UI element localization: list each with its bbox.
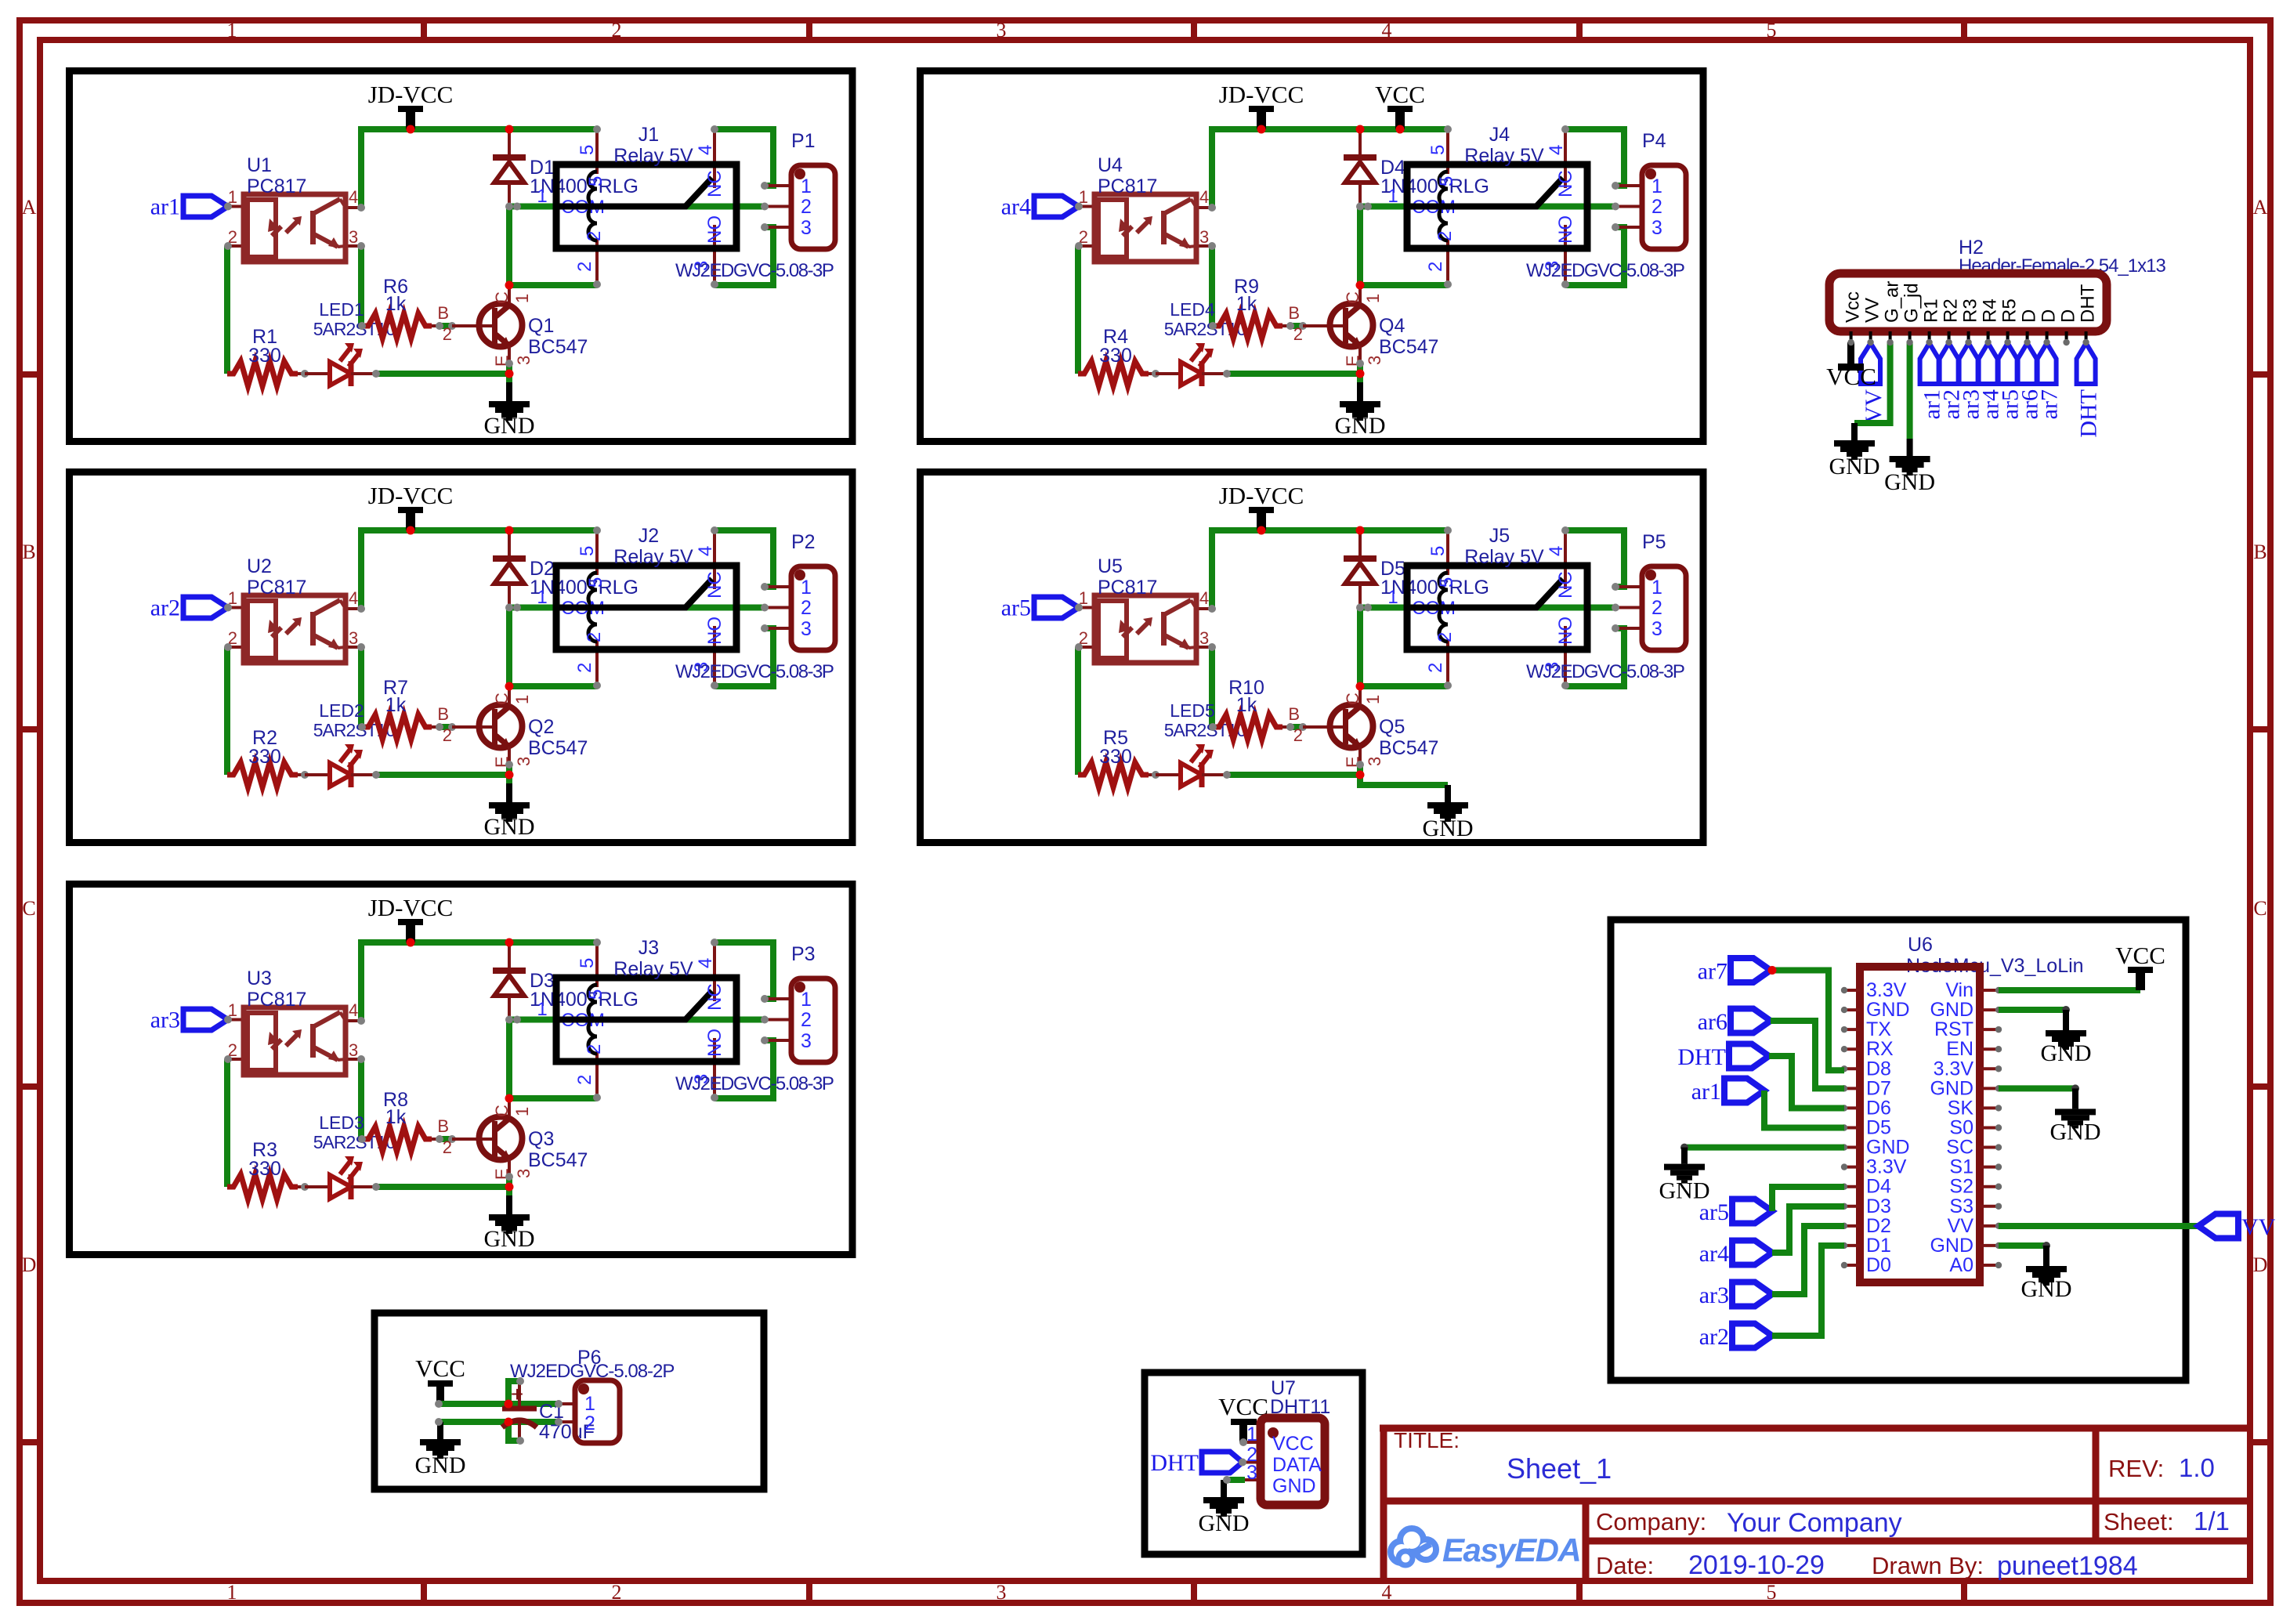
svg-text:ar4: ar4 bbox=[1699, 1241, 1729, 1267]
svg-text:J4: J4 bbox=[1489, 124, 1510, 146]
led LED3 bbox=[305, 1112, 395, 1199]
wire U1 pin2 down bbox=[224, 246, 230, 374]
net label ar4 at H2 bbox=[1978, 343, 2004, 419]
svg-text:JD-VCC: JD-VCC bbox=[1219, 482, 1304, 509]
svg-text:LED2: LED2 bbox=[319, 700, 364, 721]
wire NO to P pin3 bbox=[1565, 227, 1624, 285]
svg-text:G_jd: G_jd bbox=[1901, 283, 1923, 323]
svg-text:GND: GND bbox=[2021, 1276, 2072, 1302]
svg-text:1: 1 bbox=[537, 999, 547, 1020]
svg-text:WJ2EDGVC-5.08-3P: WJ2EDGVC-5.08-3P bbox=[675, 260, 834, 281]
wire Vin to VCC bbox=[1999, 987, 2140, 993]
wire ar6 to D7 bbox=[1771, 1021, 1844, 1088]
svg-text:3.3V: 3.3V bbox=[1866, 1156, 1907, 1178]
svg-text:2: 2 bbox=[443, 725, 452, 745]
svg-text:R3: R3 bbox=[1960, 298, 1981, 323]
svg-text:1k: 1k bbox=[385, 1106, 407, 1128]
svg-text:D2: D2 bbox=[1866, 1215, 1891, 1237]
svg-text:Q5: Q5 bbox=[1379, 716, 1405, 738]
resistor R9 lead dots bbox=[1282, 324, 1290, 327]
svg-text:C: C bbox=[492, 291, 512, 304]
optocoupler U5 PC817 bbox=[1075, 555, 1216, 663]
svg-text:C: C bbox=[492, 1105, 512, 1117]
svg-text:5: 5 bbox=[585, 176, 606, 186]
svg-text:1/1: 1/1 bbox=[2194, 1506, 2230, 1535]
resistor R5 bbox=[1078, 727, 1149, 787]
wire ar7 to D8 bbox=[1771, 971, 1844, 1071]
svg-text:NC: NC bbox=[704, 170, 725, 197]
transistor Q3 BC547 bbox=[437, 1100, 588, 1181]
svg-text:ar3: ar3 bbox=[150, 1007, 180, 1033]
svg-text:NO: NO bbox=[1555, 215, 1576, 244]
svg-text:DHT: DHT bbox=[2078, 284, 2099, 323]
wire ar3 to D2 bbox=[1772, 1226, 1844, 1294]
transistor Q5 BC547 bbox=[1288, 688, 1438, 769]
wire U6 left GND bbox=[1684, 1145, 1844, 1151]
svg-text:330: 330 bbox=[248, 345, 281, 367]
svg-text:LED4: LED4 bbox=[1170, 299, 1215, 320]
resistor R6 bbox=[362, 276, 432, 338]
svg-text:1: 1 bbox=[537, 587, 547, 608]
svg-text:A: A bbox=[22, 196, 37, 219]
resistor R7 lead dots bbox=[432, 725, 440, 729]
net label ar6 at U6 bbox=[1698, 1009, 1771, 1036]
svg-text:C: C bbox=[22, 897, 35, 920]
svg-text:3: 3 bbox=[1246, 1462, 1257, 1484]
svg-text:Q2: Q2 bbox=[528, 716, 554, 738]
ic U6 left pins bbox=[1841, 979, 1910, 1276]
relay J1 Relay 5V bbox=[537, 124, 736, 288]
net label ar7 at H2 bbox=[2037, 343, 2063, 419]
ground GND U6 right top bbox=[2041, 1010, 2092, 1066]
svg-text:Your Company: Your Company bbox=[1727, 1508, 1902, 1538]
svg-text:GND: GND bbox=[1930, 999, 1973, 1021]
svg-text:330: 330 bbox=[1099, 746, 1132, 768]
svg-text:ar6: ar6 bbox=[1698, 1009, 1727, 1035]
svg-text:4: 4 bbox=[349, 187, 358, 207]
svg-text:2019-10-29: 2019-10-29 bbox=[1688, 1550, 1825, 1580]
svg-text:5: 5 bbox=[1767, 19, 1777, 42]
svg-text:J2: J2 bbox=[639, 525, 659, 547]
wire LED2 to emitter node bbox=[376, 772, 509, 778]
svg-text:LED1: LED1 bbox=[319, 299, 364, 320]
junction dots block 1 bbox=[407, 125, 415, 134]
resistor R4 bbox=[1078, 326, 1149, 386]
svg-text:puneet1984: puneet1984 bbox=[1997, 1551, 2138, 1581]
svg-text:U1: U1 bbox=[247, 154, 272, 176]
svg-text:GND: GND bbox=[484, 814, 535, 840]
header H2 pin end dots bbox=[1847, 339, 2089, 345]
wire emitter stub bbox=[1357, 362, 1363, 374]
svg-text:U3: U3 bbox=[247, 968, 272, 989]
svg-text:WJ2EDGVC-5.08-3P: WJ2EDGVC-5.08-3P bbox=[1526, 260, 1684, 281]
power flag JD-VCC block 4 bbox=[1219, 81, 1304, 129]
svg-text:C: C bbox=[2253, 897, 2266, 920]
svg-text:VCC: VCC bbox=[1375, 81, 1425, 108]
wire NC to P pin1 bbox=[714, 129, 773, 186]
frame row ticks right bbox=[2250, 371, 2270, 378]
connector P1 WJ2EDGVC-5.08-3P bbox=[675, 130, 835, 281]
svg-text:VCC: VCC bbox=[1826, 363, 1876, 390]
svg-text:ar2: ar2 bbox=[150, 595, 180, 621]
svg-text:GND: GND bbox=[1866, 1137, 1910, 1159]
wire NO to P pin3 bbox=[714, 628, 773, 686]
svg-text:JD-VCC: JD-VCC bbox=[368, 894, 454, 921]
svg-text:WJ2EDGVC-5.08-2P: WJ2EDGVC-5.08-2P bbox=[510, 1361, 674, 1382]
svg-text:1k: 1k bbox=[1236, 694, 1257, 716]
svg-text:RST: RST bbox=[1934, 1018, 1973, 1040]
wire emitter stub bbox=[1357, 763, 1363, 775]
svg-text:VCC: VCC bbox=[1272, 1433, 1314, 1455]
svg-text:2: 2 bbox=[1425, 262, 1446, 272]
wire NO to P pin3 bbox=[714, 1040, 773, 1098]
wire NO to P pin3 bbox=[1565, 628, 1624, 686]
optocoupler U3 PC817 bbox=[224, 968, 365, 1075]
svg-text:Relay 5V: Relay 5V bbox=[1464, 546, 1544, 568]
svg-text:2: 2 bbox=[584, 1412, 595, 1434]
power flag VCC U6 bbox=[2115, 942, 2165, 990]
capacitor C1 470uF bbox=[502, 1377, 595, 1445]
svg-text:D7: D7 bbox=[1866, 1077, 1891, 1099]
resistor R2 bbox=[227, 727, 298, 787]
svg-text:S0: S0 bbox=[1949, 1116, 1973, 1138]
svg-text:TITLE:: TITLE: bbox=[1394, 1428, 1460, 1452]
svg-text:VCC: VCC bbox=[2115, 942, 2165, 969]
svg-text:4: 4 bbox=[349, 1000, 358, 1020]
svg-text:BC547: BC547 bbox=[1379, 336, 1438, 358]
svg-text:Vin: Vin bbox=[1945, 979, 1973, 1001]
power flag VCC at P6 bbox=[415, 1355, 465, 1404]
svg-text:Date:: Date: bbox=[1596, 1552, 1654, 1579]
wire emitter to GND bbox=[1360, 775, 1448, 785]
wire JD-VCC bus bbox=[1212, 129, 1448, 208]
led LED1 bbox=[305, 299, 395, 386]
wire NC to P pin1 bbox=[1565, 129, 1624, 186]
svg-text:NC: NC bbox=[704, 571, 725, 599]
svg-text:2: 2 bbox=[443, 1138, 452, 1157]
pin dot U6 left GND bbox=[1680, 1144, 1688, 1152]
svg-text:PC817: PC817 bbox=[247, 989, 306, 1011]
wire U3 pin2 down bbox=[224, 1059, 230, 1187]
svg-text:LED3: LED3 bbox=[319, 1112, 364, 1133]
svg-text:5: 5 bbox=[585, 577, 606, 588]
resistor R5 lead dot bbox=[1149, 773, 1156, 776]
svg-text:GND: GND bbox=[2050, 1119, 2101, 1145]
svg-text:D1: D1 bbox=[1866, 1235, 1891, 1257]
svg-text:C: C bbox=[1343, 291, 1362, 304]
wire LED3 to emitter node bbox=[376, 1184, 509, 1190]
svg-text:S1: S1 bbox=[1949, 1156, 1973, 1178]
relay driver block 2 outline bbox=[70, 472, 853, 843]
svg-text:2: 2 bbox=[1651, 597, 1662, 619]
ground GND block 2 bbox=[484, 783, 535, 840]
wire DHT to D6 bbox=[1769, 1056, 1844, 1109]
svg-text:ar4: ar4 bbox=[1001, 194, 1031, 220]
wire VV bbox=[1999, 1223, 2198, 1229]
svg-text:1: 1 bbox=[512, 695, 532, 704]
svg-text:BC547: BC547 bbox=[1379, 737, 1438, 759]
svg-text:ar5: ar5 bbox=[1699, 1199, 1729, 1225]
svg-text:2: 2 bbox=[801, 597, 812, 619]
net label VV at U6 bbox=[2198, 1214, 2276, 1241]
resistor R3 lead dot bbox=[298, 1185, 305, 1188]
svg-text:2: 2 bbox=[1293, 324, 1303, 344]
svg-text:GND: GND bbox=[1335, 413, 1386, 439]
diode D4 1N4007RLG bbox=[1344, 132, 1489, 211]
svg-text:C: C bbox=[1343, 693, 1362, 705]
svg-text:2: 2 bbox=[443, 324, 452, 344]
wire D5 to coil bbox=[1360, 609, 1448, 686]
svg-text:ar1: ar1 bbox=[150, 194, 180, 220]
svg-text:4: 4 bbox=[1382, 19, 1392, 42]
svg-text:G_ar: G_ar bbox=[1882, 281, 1903, 323]
wire ar4 to D3 bbox=[1772, 1206, 1844, 1253]
svg-text:Drawn By:: Drawn By: bbox=[1872, 1552, 1984, 1579]
svg-text:4: 4 bbox=[1199, 187, 1209, 207]
frame column ticks bottom bbox=[421, 1581, 427, 1603]
svg-text:2: 2 bbox=[1434, 231, 1456, 241]
svg-text:5: 5 bbox=[585, 989, 606, 1000]
svg-text:1: 1 bbox=[584, 1393, 595, 1415]
svg-text:B: B bbox=[437, 704, 449, 724]
svg-text:S2: S2 bbox=[1949, 1176, 1973, 1198]
svg-text:3.3V: 3.3V bbox=[1866, 979, 1907, 1001]
net label ar3 at U6 bbox=[1699, 1282, 1772, 1309]
wire emitter stub bbox=[506, 1175, 512, 1187]
svg-text:C: C bbox=[492, 693, 512, 705]
svg-text:3: 3 bbox=[349, 628, 358, 648]
svg-text:1: 1 bbox=[1246, 1423, 1257, 1445]
svg-text:D3: D3 bbox=[1866, 1195, 1891, 1217]
wire base stub bbox=[1290, 724, 1304, 730]
svg-text:NC: NC bbox=[704, 983, 725, 1011]
power flag JD-VCC block 1 bbox=[368, 81, 454, 129]
svg-text:D8: D8 bbox=[1866, 1058, 1891, 1080]
wire H2 pin 3 to GND bbox=[1854, 342, 1890, 423]
resistor R3 bbox=[227, 1139, 298, 1199]
svg-text:4: 4 bbox=[695, 546, 716, 556]
net label DHT at H2 bbox=[2076, 343, 2102, 438]
ic U6 NodeMcu_V3_LoLin bbox=[1860, 934, 2084, 1282]
svg-text:D: D bbox=[2019, 309, 2040, 323]
svg-text:GND: GND bbox=[1829, 454, 1880, 479]
connector P6 WJ2EDGVC-5.08-2P bbox=[435, 1347, 674, 1443]
svg-text:SK: SK bbox=[1948, 1097, 1974, 1119]
svg-text:3: 3 bbox=[349, 227, 358, 247]
wire U7 GND pin3 bbox=[1227, 1477, 1245, 1483]
svg-text:EN: EN bbox=[1946, 1038, 1973, 1060]
svg-text:B: B bbox=[437, 1116, 449, 1136]
net label ar5 at H2 bbox=[1998, 343, 2024, 419]
net label ar2 at H2 bbox=[1939, 343, 1965, 419]
svg-text:GND: GND bbox=[484, 413, 535, 439]
frame column ticks top bbox=[421, 20, 427, 40]
wire U6 GND right top bbox=[1999, 1007, 2066, 1013]
svg-text:Q1: Q1 bbox=[528, 315, 554, 337]
wire COM to P pin2 bbox=[511, 204, 765, 210]
junction dots block 5 bbox=[1257, 526, 1266, 535]
svg-text:5: 5 bbox=[1436, 577, 1457, 588]
net label ar4 at U6 bbox=[1699, 1241, 1772, 1268]
svg-text:DHT: DHT bbox=[2076, 389, 2102, 438]
wire emitter stub bbox=[506, 763, 512, 775]
wire COM to P pin2 bbox=[1362, 204, 1615, 210]
wire base stub bbox=[440, 323, 453, 329]
title block frame bbox=[1380, 1428, 2250, 1581]
wire U7 VCC pin1 bbox=[1243, 1441, 1261, 1444]
svg-text:1: 1 bbox=[512, 1107, 532, 1116]
svg-text:NC: NC bbox=[1555, 571, 1576, 599]
svg-text:2: 2 bbox=[612, 19, 622, 42]
svg-text:GND: GND bbox=[1884, 469, 1935, 495]
net label DHT at U6 bbox=[1677, 1044, 1769, 1071]
resistor R7 bbox=[362, 677, 432, 740]
junction dot ar7 bbox=[1768, 966, 1777, 975]
svg-text:5: 5 bbox=[1767, 1581, 1777, 1604]
svg-text:VV: VV bbox=[2241, 1214, 2276, 1240]
svg-text:1: 1 bbox=[1363, 695, 1383, 704]
svg-text:2: 2 bbox=[574, 262, 595, 272]
svg-text:4: 4 bbox=[695, 145, 716, 155]
svg-text:D5: D5 bbox=[1866, 1116, 1891, 1138]
svg-text:BC547: BC547 bbox=[528, 336, 588, 358]
svg-text:B: B bbox=[2253, 541, 2266, 563]
svg-text:B: B bbox=[1288, 704, 1300, 724]
power flag JD-VCC block 2 bbox=[368, 482, 454, 530]
relay J5 Relay 5V bbox=[1387, 525, 1587, 689]
wire LED5 to emitter node bbox=[1227, 772, 1360, 778]
svg-text:+: + bbox=[511, 1382, 523, 1406]
net label DHT at U7 bbox=[1150, 1450, 1243, 1476]
svg-text:1k: 1k bbox=[1236, 293, 1257, 315]
wire base stub bbox=[1290, 323, 1304, 329]
svg-text:3: 3 bbox=[801, 618, 812, 640]
wire U6 GND right bottom bbox=[1999, 1242, 2046, 1249]
svg-text:NO: NO bbox=[704, 1029, 725, 1057]
transistor Q1 BC547 bbox=[437, 287, 588, 367]
led LED5 bbox=[1156, 700, 1246, 787]
svg-text:4: 4 bbox=[349, 588, 358, 608]
net label ar4 bbox=[1001, 194, 1079, 220]
svg-text:3.3V: 3.3V bbox=[1934, 1058, 1974, 1080]
svg-text:R5: R5 bbox=[1999, 298, 2020, 323]
svg-text:VV: VV bbox=[1862, 298, 1883, 323]
net label VV at H2 pin 2 bbox=[1861, 343, 1887, 423]
svg-text:PC817: PC817 bbox=[1098, 175, 1157, 197]
svg-text:2: 2 bbox=[801, 1009, 812, 1031]
connector P2 WJ2EDGVC-5.08-3P bbox=[675, 531, 835, 682]
svg-text:2: 2 bbox=[1293, 725, 1303, 745]
svg-text:330: 330 bbox=[248, 1158, 281, 1180]
resistor R4 lead dot bbox=[1149, 372, 1156, 375]
svg-text:NO: NO bbox=[1555, 617, 1576, 645]
header H2 pin stubs bbox=[1851, 331, 2086, 342]
svg-text:GND: GND bbox=[1866, 999, 1910, 1021]
svg-text:NO: NO bbox=[704, 617, 725, 645]
wire U2 pin3 to R7 bbox=[358, 647, 364, 727]
svg-text:J5: J5 bbox=[1489, 525, 1510, 547]
optocoupler U1 PC817 bbox=[224, 154, 365, 262]
svg-text:1: 1 bbox=[537, 186, 547, 207]
svg-text:D: D bbox=[2058, 309, 2079, 323]
wire ar2 to D1 bbox=[1772, 1246, 1844, 1336]
svg-text:J3: J3 bbox=[639, 937, 659, 959]
svg-text:2: 2 bbox=[612, 1581, 622, 1604]
power flag VCC at U7 bbox=[1218, 1393, 1268, 1442]
svg-text:2: 2 bbox=[574, 1075, 595, 1085]
net label ar2 bbox=[150, 595, 228, 621]
resistor R9 bbox=[1213, 276, 1282, 338]
diode D2 1N4007RLG bbox=[493, 533, 639, 612]
svg-text:2: 2 bbox=[584, 231, 605, 241]
svg-text:ar7: ar7 bbox=[2037, 389, 2063, 419]
resistor R8 bbox=[362, 1089, 432, 1152]
svg-text:Relay 5V: Relay 5V bbox=[613, 958, 693, 980]
svg-text:ar2: ar2 bbox=[1699, 1324, 1729, 1350]
wire NO to P pin3 bbox=[714, 227, 773, 285]
net label ar5 at U6 bbox=[1699, 1199, 1772, 1226]
power flag JD-VCC block 5 bbox=[1219, 482, 1304, 530]
wire ar1 to D5 bbox=[1764, 1091, 1844, 1128]
ground GND block 3 bbox=[484, 1195, 535, 1252]
relay driver block 1 outline bbox=[70, 71, 853, 442]
svg-text:Q4: Q4 bbox=[1379, 315, 1405, 337]
svg-text:JD-VCC: JD-VCC bbox=[368, 482, 454, 509]
wire U4 pin2 down bbox=[1075, 246, 1081, 374]
ground GND H2 pin3 bbox=[1829, 423, 1880, 479]
svg-text:4: 4 bbox=[1199, 588, 1209, 608]
net label ar5 bbox=[1001, 595, 1079, 621]
wire D2 to coil bbox=[509, 609, 597, 686]
ground GND block 4 bbox=[1335, 382, 1386, 439]
svg-text:GND: GND bbox=[1930, 1235, 1973, 1257]
svg-text:U6: U6 bbox=[1908, 934, 1933, 956]
svg-text:2: 2 bbox=[1434, 632, 1456, 642]
svg-text:ar3: ar3 bbox=[1699, 1282, 1729, 1308]
svg-text:P1: P1 bbox=[791, 130, 816, 152]
svg-text:R2: R2 bbox=[1941, 298, 1962, 323]
svg-text:3: 3 bbox=[801, 217, 812, 239]
svg-text:NC: NC bbox=[1555, 170, 1576, 197]
svg-text:P5: P5 bbox=[1642, 531, 1666, 553]
svg-text:S3: S3 bbox=[1949, 1195, 1973, 1217]
net label ar1 at H2 bbox=[1919, 343, 1945, 419]
svg-text:GND: GND bbox=[1423, 816, 1474, 841]
svg-text:J1: J1 bbox=[639, 124, 659, 146]
junction dots block 2 bbox=[407, 526, 415, 535]
svg-text:TX: TX bbox=[1866, 1018, 1891, 1040]
svg-text:4: 4 bbox=[1546, 145, 1567, 155]
svg-text:NO: NO bbox=[704, 215, 725, 244]
power flag VCC block 4 bbox=[1375, 81, 1425, 129]
relay J4 Relay 5V bbox=[1387, 124, 1587, 288]
svg-text:A: A bbox=[2253, 196, 2268, 219]
wire emitter to GND stub bbox=[506, 775, 512, 784]
svg-text:1: 1 bbox=[801, 175, 812, 197]
svg-text:330: 330 bbox=[1099, 345, 1132, 367]
svg-text:WJ2EDGVC-5.08-3P: WJ2EDGVC-5.08-3P bbox=[675, 661, 834, 682]
svg-text:1: 1 bbox=[227, 19, 237, 42]
svg-text:JD-VCC: JD-VCC bbox=[368, 81, 454, 108]
svg-text:VCC: VCC bbox=[415, 1355, 465, 1382]
svg-text:ar7: ar7 bbox=[1698, 959, 1727, 985]
svg-text:2: 2 bbox=[1425, 663, 1446, 673]
svg-text:1: 1 bbox=[1387, 186, 1398, 207]
net label ar3 at H2 bbox=[1959, 343, 1984, 419]
frame row ticks left bbox=[20, 371, 40, 378]
block outline U7 DHT11 bbox=[1145, 1373, 1362, 1554]
resistor R6 lead dots bbox=[432, 324, 440, 327]
